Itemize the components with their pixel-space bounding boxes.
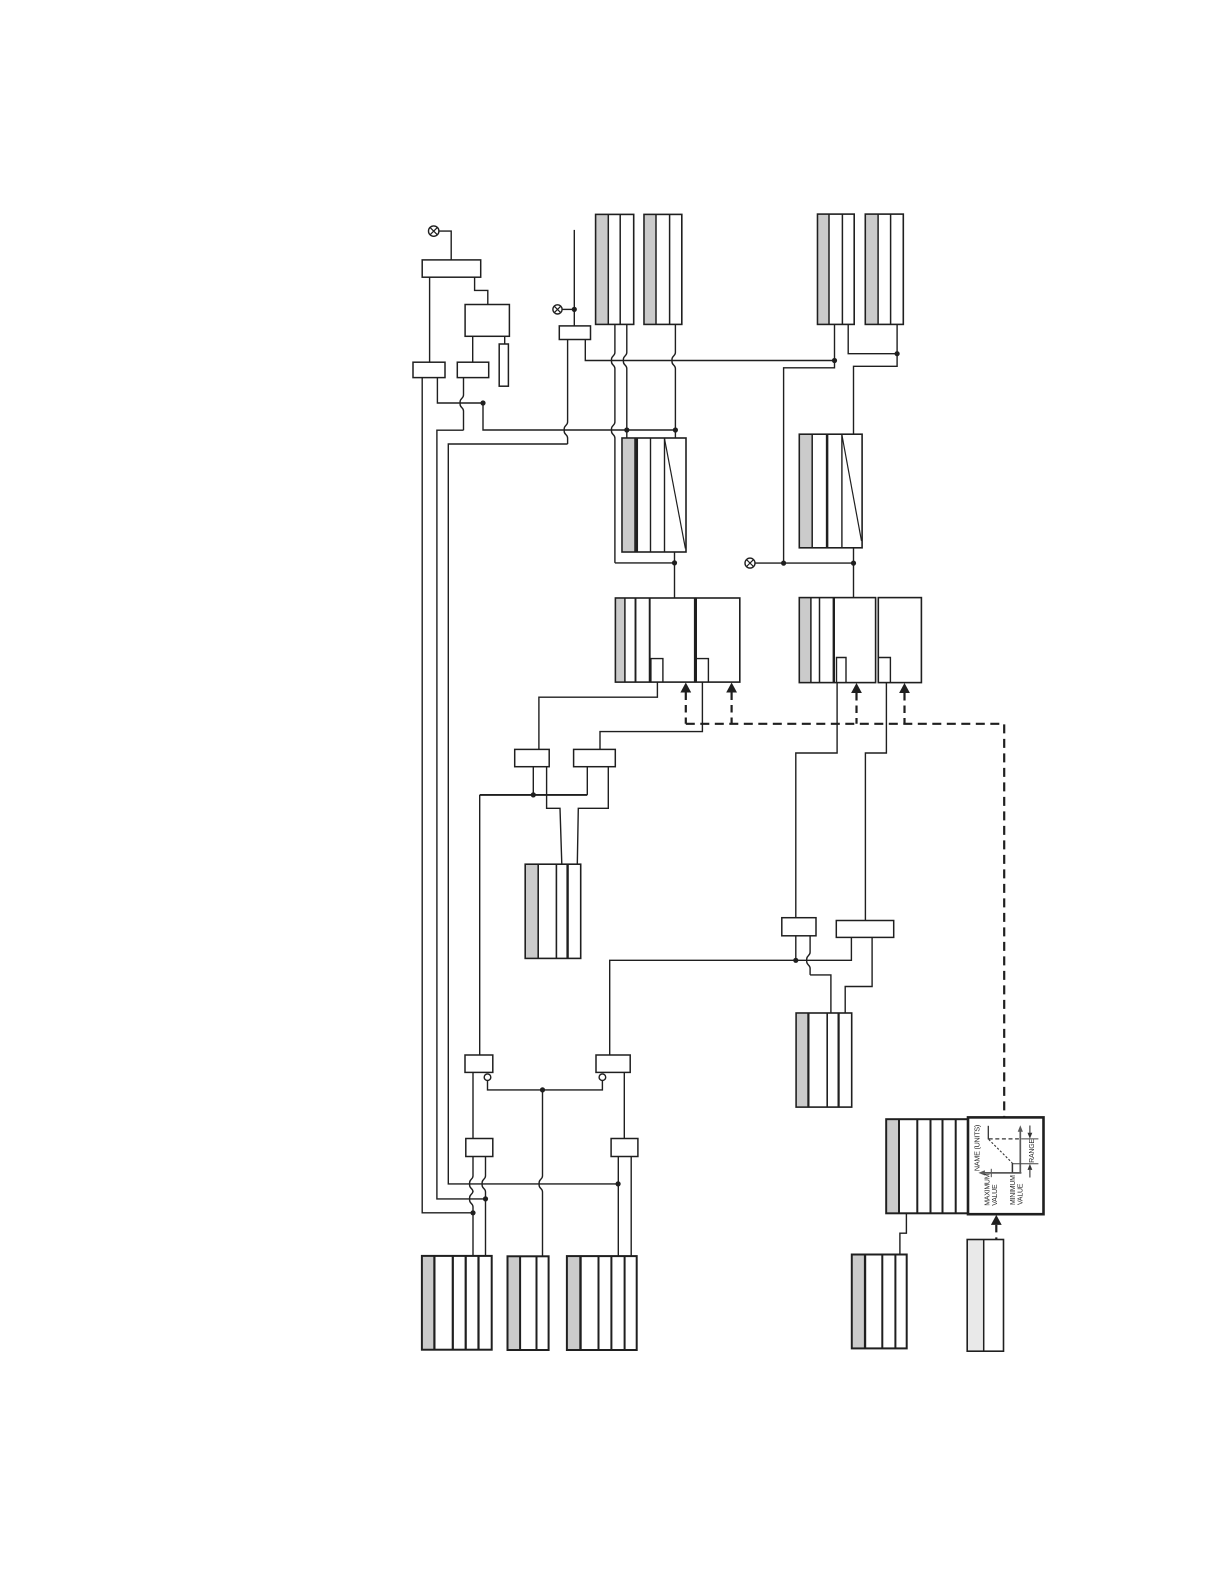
svg-text:VALUE: VALUE	[992, 1184, 999, 1206]
svg-text:MAXIMUM: MAXIMUM	[985, 1173, 992, 1206]
svg-text:VALUE: VALUE	[1018, 1183, 1025, 1205]
svg-text:NAME (UNITS): NAME (UNITS)	[973, 1125, 982, 1171]
svg-text:MINIMUM: MINIMUM	[1010, 1175, 1017, 1205]
svg-text:RANGE: RANGE	[1029, 1139, 1036, 1163]
